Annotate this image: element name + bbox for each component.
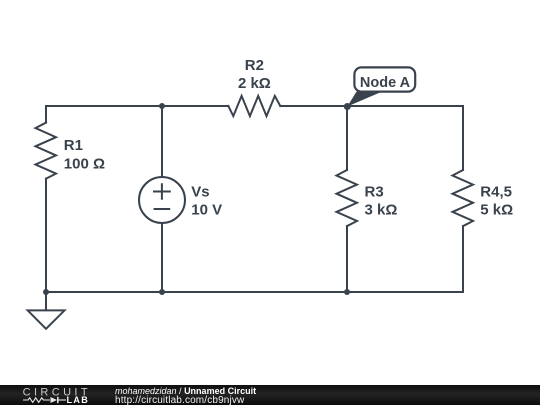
- ground symbol triangle: [28, 310, 65, 328]
- wire R3 branch upper: [346, 106, 348, 170]
- wire left vertical lower segment: [45, 179, 47, 292]
- node A callout balloon: [347, 67, 415, 106]
- svg-text:R3: R3: [365, 183, 384, 200]
- wire Vs branch lower: [161, 223, 163, 292]
- junction dot bottom R3: [344, 289, 350, 295]
- footer bar: [0, 385, 540, 405]
- junction dot bottom Vs: [159, 289, 165, 295]
- CircuitLab logo: [20, 384, 100, 405]
- svg-text:3 kΩ: 3 kΩ: [365, 202, 398, 219]
- svg-text:LAB: LAB: [67, 395, 90, 405]
- svg-text:10 V: 10 V: [191, 201, 222, 218]
- Vs minus sign: [155, 208, 170, 210]
- resistor R2 (horizontal zigzag body): [228, 96, 280, 116]
- node A junction dot: [344, 103, 351, 110]
- junction dot bottom-left (ground): [43, 289, 49, 295]
- ground stub wire: [45, 292, 47, 310]
- svg-text:R1: R1: [64, 137, 83, 154]
- wire top-left horizontal segment: [46, 105, 228, 107]
- resistor R1 (vertical zigzag body): [36, 123, 57, 179]
- wire left vertical upper stub: [45, 106, 47, 123]
- wire bottom horizontal: [46, 291, 463, 293]
- wire right vertical upper: [462, 106, 464, 170]
- wire R3 branch lower: [346, 226, 348, 292]
- credits text: [0, 0, 540, 1]
- svg-text:R4,5: R4,5: [480, 183, 512, 200]
- voltage source Vs circle: [139, 177, 185, 223]
- svg-text:Vs: Vs: [191, 183, 209, 200]
- resistor R3 (vertical zigzag body): [337, 170, 358, 226]
- svg-text:R2: R2: [245, 57, 264, 74]
- wire top-right horizontal segment: [280, 105, 463, 107]
- wire Vs branch upper: [161, 106, 163, 177]
- wire right vertical lower: [462, 226, 464, 292]
- svg-text:2 kΩ: 2 kΩ: [238, 75, 271, 92]
- svg-text:5 kΩ: 5 kΩ: [480, 202, 513, 219]
- node junction dot at Vs top: [159, 103, 165, 109]
- svg-text:Node A: Node A: [360, 75, 411, 91]
- svg-text:100 Ω: 100 Ω: [64, 155, 105, 172]
- Vs plus sign: [154, 184, 170, 199]
- resistor R4,5 (vertical zigzag body): [453, 170, 474, 226]
